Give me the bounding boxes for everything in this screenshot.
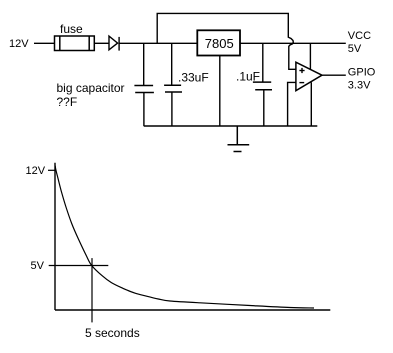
graph x-axis bbox=[55, 309, 330, 311]
graph y-axis bbox=[54, 163, 56, 310]
svg-text:5V: 5V bbox=[348, 43, 362, 55]
wire big capacitor bottom lead bbox=[143, 93, 145, 127]
wire regulator ground pin bbox=[219, 56, 221, 127]
wire 12V to fuse bbox=[34, 42, 55, 44]
svg-text:12V: 12V bbox=[9, 38, 29, 50]
wire VCC rail regulator output bbox=[240, 42, 346, 44]
svg-text:5V: 5V bbox=[31, 260, 45, 272]
graph 12V tick bbox=[48, 169, 55, 171]
svg-text:5 seconds: 5 seconds bbox=[85, 326, 140, 340]
wire .1uF bottom lead bbox=[263, 90, 265, 126]
svg-text:3.3V: 3.3V bbox=[348, 80, 371, 92]
fuse F1 bbox=[55, 36, 95, 51]
diode D1 bbox=[109, 36, 119, 51]
svg-text:VCC: VCC bbox=[348, 30, 371, 42]
svg-text:7805: 7805 bbox=[205, 36, 234, 51]
op-amp U2 bbox=[296, 62, 322, 90]
graph 5V level line bbox=[49, 265, 109, 267]
capacitor C2 .33uF bbox=[164, 85, 182, 92]
wire op-amp positive supply pin from VCC bbox=[309, 43, 311, 69]
wire ground rail bbox=[144, 125, 318, 127]
wire .1uF top lead bbox=[262, 43, 264, 82]
regulator U1 7805 bbox=[197, 30, 240, 55]
wire unregulated feed loop to op-amp plus input bbox=[157, 13, 296, 69]
capacitor C3 .1uF bbox=[253, 82, 272, 90]
ground bbox=[228, 126, 250, 152]
svg-text:??F: ??F bbox=[57, 95, 78, 109]
wire op-amp negative supply pin to ground bbox=[310, 82, 312, 126]
wire .33uF top lead bbox=[171, 43, 173, 85]
svg-text:big capacitor: big capacitor bbox=[57, 81, 125, 95]
svg-text:GPIO: GPIO bbox=[348, 67, 376, 79]
svg-text:.33uF: .33uF bbox=[178, 71, 209, 85]
svg-text:12V: 12V bbox=[26, 165, 46, 177]
wire op-amp output bbox=[322, 74, 346, 76]
graph decay curve bbox=[55, 166, 314, 308]
svg-text:fuse: fuse bbox=[60, 22, 83, 36]
capacitor C1 label bbox=[57, 81, 125, 109]
wire diode to regulator input bbox=[119, 42, 197, 44]
svg-text:.1uF: .1uF bbox=[236, 70, 260, 84]
wire big capacitor top lead bbox=[143, 43, 145, 85]
wire .33uF bottom lead bbox=[171, 92, 173, 126]
capacitor C1 big capacitor bbox=[134, 86, 154, 93]
wire op-amp minus input to ground bbox=[288, 82, 296, 126]
graph 5 seconds marker line bbox=[91, 258, 93, 322]
wire fuse to diode bbox=[94, 42, 109, 44]
